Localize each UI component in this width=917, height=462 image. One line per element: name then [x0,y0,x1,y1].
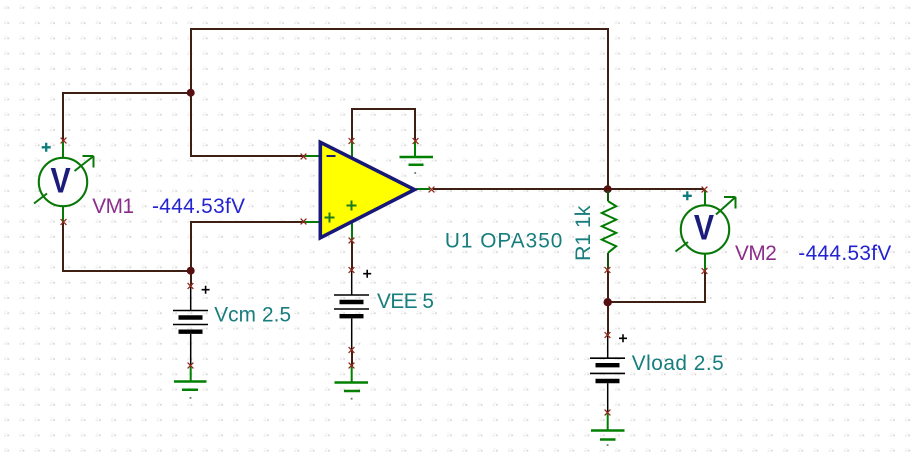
Vload plus sign [619,334,627,342]
wire feedback right vertical [607,28,609,190]
svg-text:-444.53fV: -444.53fV [798,242,891,265]
U1 pin marker V- [349,238,355,244]
VM1 needle tail [34,194,47,204]
R1 pin marker bottom [605,267,611,273]
battery VEE [334,267,371,353]
junction node B [187,267,195,275]
VM2 body circle [681,205,729,253]
ground at Vload [591,410,625,446]
ground at VEE [335,363,369,400]
Vload bottom lead [607,383,609,412]
VM1 pin stub top [62,141,64,159]
VM2 pin stub top [704,190,706,206]
Vcm plates [173,311,208,325]
Vcm pin marker top [188,283,194,289]
VM1 pin marker bottom [61,219,67,225]
U1 V+ pin stub [351,141,353,157]
VEE plus sign [363,270,371,278]
R1 top lead [607,191,609,202]
ground bars [591,431,625,440]
U1 non-inverting input pin stub [304,221,319,223]
VM2 pin marker top [702,187,708,193]
VM1 pin marker top [61,138,67,144]
wire R1 bottom to node C [607,271,609,302]
U1 positive supply mark [347,201,357,211]
battery Vload [590,332,627,412]
svg-text:VEE 5: VEE 5 [377,290,433,313]
wire VM1 minus to node B [63,222,191,271]
VM2 pin stub bottom [704,253,706,271]
VM2 plus polarity mark [683,191,692,200]
Vload plates [590,358,625,373]
ground bars [400,157,434,165]
junction node A [187,89,195,97]
Vload pin marker top [605,332,611,338]
voltmeter VM1 [34,138,94,225]
ground pin stub [190,366,192,381]
U1 V- pin stub [351,223,353,240]
svg-text:Vload 2.5: Vload 2.5 [632,352,724,375]
wire VM2 minus to node C [608,271,705,302]
junction node C [604,298,612,306]
svg-text:V: V [694,209,715,248]
svg-text:VM2: VM2 [735,242,776,265]
wire node B to Vcm [190,271,192,286]
svg-text:R1 1k: R1 1k [571,205,595,261]
ground pin stub [414,141,416,156]
U1 plus input mark [325,213,335,223]
ground bars [335,383,369,392]
wire VM1 plus to node A [63,92,191,141]
battery Vcm [173,283,210,365]
VM1 pin stub bottom [62,206,64,223]
ground pin stub [351,366,353,382]
wire VEE to ground [351,350,353,366]
Vcm plus sign [202,286,210,294]
svg-text:Vcm 2.5: Vcm 2.5 [214,303,291,326]
svg-text:-444.53fV: -444.53fV [152,195,245,218]
R1 bottom lead [607,253,609,270]
ground pin marker [349,363,355,369]
Vcm bottom lead [190,334,192,366]
ground pin marker [605,410,611,416]
VEE pin marker bottom [349,347,355,353]
U1 inverting input pin stub [304,155,319,157]
wire feedback left vertical to inverting input [191,28,304,156]
VEE plates [334,295,369,309]
R1 zigzag body [602,201,616,253]
VEE bottom lead [351,319,353,351]
svg-text:U1 OPA350: U1 OPA350 [445,230,563,253]
wire op-amp V+ pin loop to ground [351,109,415,140]
ground at op-amp V+ [400,138,434,174]
Vcm top lead [190,286,192,310]
ground pin marker [188,363,194,369]
wire feedback top [190,28,608,30]
junction output node [604,185,612,193]
VEE pin marker top [349,267,355,273]
wire op-amp V- pin to VEE [351,241,353,270]
U1 output pin stub [416,188,430,190]
voltmeter VM2 [676,187,736,274]
svg-text:V: V [51,162,72,201]
wire node B to non-inverting input [191,222,304,272]
ground bars [174,382,207,390]
resistor R1 [602,191,616,273]
ground pin stub [607,413,609,430]
VM2 pin marker bottom [702,268,708,274]
Vload top lead [607,335,609,358]
VM2 needle tail [676,242,689,252]
U1 triangle body [320,142,414,238]
U1 pin marker V+ [349,138,355,144]
U1 minus input mark [327,155,336,157]
ground at Vcm [174,363,207,399]
VM2 needle arrow [716,197,736,215]
U1 pin marker inverting [301,154,307,160]
wire node C to Vload [607,302,609,335]
VM1 needle arrow [75,156,94,171]
op-amp U1 [301,138,435,243]
wire output to VM2 [433,188,704,190]
VM1 body circle [39,158,87,206]
ground pin marker [413,138,419,144]
VM1 plus polarity mark [42,143,51,152]
VEE top lead [351,270,353,295]
U1 pin marker output [429,187,435,193]
U1 pin marker non-inverting [301,219,307,225]
svg-text:VM1: VM1 [92,195,133,218]
